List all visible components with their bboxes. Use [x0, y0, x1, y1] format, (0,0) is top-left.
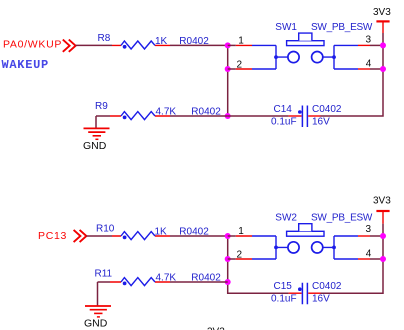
port PA0/WKUP [3, 39, 76, 52]
power 3V3 (bottom) [373, 195, 391, 223]
SW1 right bracket [323, 45, 334, 69]
junction bottom rail pin1 [225, 233, 231, 239]
left rail wire (top section) [227, 45, 229, 116]
svg-text:SW_PB_ESW: SW_PB_ESW [311, 213, 373, 224]
svg-text:GND: GND [84, 318, 108, 330]
svg-text:WAKEUP: WAKEUP [2, 58, 49, 72]
capacitor C15 [289, 283, 321, 305]
wire SW2 pin3 to right rail [370, 235, 383, 237]
svg-text:PA0/WKUP: PA0/WKUP [3, 39, 62, 51]
svg-text:4: 4 [366, 249, 372, 260]
svg-text:3: 3 [366, 224, 372, 235]
SW2 pin 4 [334, 258, 358, 260]
svg-text:1: 1 [238, 35, 244, 46]
power 3V3 (top) [373, 7, 391, 33]
junction bottom right rail pin3 [380, 233, 386, 239]
wire SW1 pin3 to right rail [370, 44, 383, 46]
capacitor C14 [289, 106, 321, 128]
resistor R9 [110, 112, 170, 120]
wire R10 to left rail [170, 235, 228, 237]
wire SW1 pin4 to right rail [370, 68, 383, 70]
svg-text:SW_PB_ESW: SW_PB_ESW [311, 22, 373, 33]
SW1 left bracket [276, 45, 287, 69]
SW1 pin 1 [236, 44, 252, 46]
SW2 pin 3 [334, 235, 358, 237]
svg-text:C0402: C0402 [312, 104, 342, 115]
svg-text:SW1: SW1 [275, 22, 297, 33]
SW2 pin 2 [236, 258, 252, 260]
svg-text:R9: R9 [95, 101, 108, 112]
wire R8 to left rail [170, 44, 228, 46]
svg-text:4: 4 [366, 59, 372, 70]
resistor R10 [112, 232, 170, 240]
SW1 pin 3 [334, 44, 358, 46]
wire GND corner to R9 [96, 115, 110, 117]
svg-text:1K: 1K [155, 36, 168, 47]
svg-text:0.1uF: 0.1uF [271, 116, 297, 127]
svg-text:3V3: 3V3 [207, 327, 225, 330]
resistor R8 [112, 41, 170, 49]
svg-text:R8: R8 [98, 33, 111, 44]
SW2 left bracket [276, 236, 287, 259]
junction bottom rail R11 [225, 279, 231, 285]
SW1 left contact [288, 52, 299, 63]
junction at rail pin1 [225, 42, 231, 48]
junction right rail pin4 [380, 66, 386, 72]
junction at rail R9/C14 [225, 113, 231, 119]
wire port to R10 [86, 235, 112, 237]
wire rail to SW2 pin1 [228, 235, 236, 237]
svg-text:R10: R10 [96, 224, 115, 235]
port PC13 [38, 230, 86, 242]
wire port to R8 [76, 44, 112, 46]
svg-text:GND: GND [83, 140, 107, 152]
SW1 pin 2 [236, 68, 252, 70]
SW2 right contact [312, 242, 323, 253]
wire SW2 pin4 to right rail [370, 258, 383, 260]
junction bottom rail pin2 [225, 256, 231, 262]
wire rail to SW1 pin2 [228, 68, 236, 70]
SW2 button cap [287, 231, 324, 236]
ground GND (bottom) [84, 282, 111, 330]
svg-text:3V3: 3V3 [373, 195, 391, 206]
resistor R11 [110, 278, 170, 286]
switch SW2 [236, 224, 370, 259]
SW2 right bracket [323, 236, 334, 259]
svg-text:1: 1 [238, 226, 244, 237]
svg-text:2: 2 [237, 250, 243, 261]
wire rail to SW2 pin2 [228, 258, 236, 260]
SW1 right contact [312, 52, 323, 63]
wire R11 to left rail [170, 281, 228, 283]
svg-text:16V: 16V [312, 116, 330, 127]
svg-text:16V: 16V [312, 293, 330, 304]
svg-text:2: 2 [237, 60, 243, 71]
wire R9 to left rail [170, 115, 228, 117]
junction at rail pin2 [225, 66, 231, 72]
wire rail to SW1 pin1 [228, 44, 236, 46]
SW2 pin 1 [236, 235, 252, 237]
svg-text:C14: C14 [274, 104, 293, 115]
right rail wire (top section) [321, 33, 384, 116]
svg-text:3V3: 3V3 [373, 7, 391, 18]
svg-text:C0402: C0402 [312, 281, 342, 292]
ground GND (top) [83, 116, 110, 152]
SW1 pin 4 [334, 68, 358, 70]
svg-text:SW2: SW2 [275, 213, 297, 224]
svg-text:0.1uF: 0.1uF [271, 293, 297, 304]
svg-text:1K: 1K [155, 227, 168, 238]
left rail wire (bottom section) [228, 236, 289, 293]
SW1 button cap [287, 41, 324, 46]
switch SW1 [236, 33, 370, 69]
SW2 left contact [288, 242, 299, 253]
junction bottom right rail pin4 [380, 256, 386, 262]
junction right rail pin3 [380, 42, 386, 48]
right rail wire (bottom section) [321, 224, 384, 294]
svg-text:3: 3 [366, 34, 372, 45]
wire left rail to C14 [228, 115, 289, 117]
wire GND corner to R11 [98, 281, 111, 283]
svg-text:C15: C15 [274, 281, 293, 292]
svg-text:R11: R11 [95, 269, 113, 280]
svg-text:PC13: PC13 [38, 230, 67, 242]
